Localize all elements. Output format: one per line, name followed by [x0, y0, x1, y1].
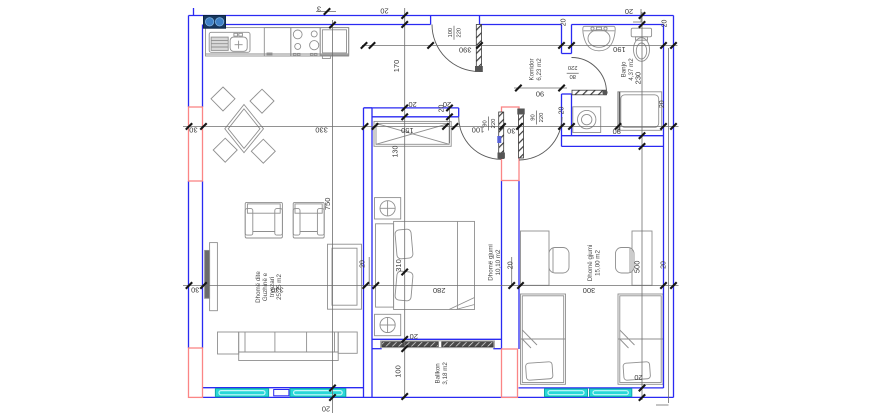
room label balcony	[435, 362, 450, 385]
sideboard	[328, 244, 362, 309]
armchair 2	[293, 202, 324, 238]
svg-text:20: 20	[659, 100, 666, 108]
svg-text:20: 20	[634, 373, 642, 382]
chair 2	[616, 248, 635, 274]
double bed headboard	[376, 224, 394, 307]
svg-text:20: 20	[662, 20, 669, 28]
svg-text:25,75 m2: 25,75 m2	[276, 274, 283, 300]
dim chain 1 (y=126.4)	[183, 125, 679, 127]
wall: left exterior outer face middle	[188, 181, 190, 348]
svg-text:20: 20	[625, 7, 633, 16]
corner jog bottom-right	[656, 404, 669, 406]
bedroom right door leaf	[517, 109, 562, 161]
stove	[291, 28, 320, 56]
svg-text:6,23 m2: 6,23 m2	[536, 58, 543, 81]
vertical ext x=511.7	[511, 257, 513, 286]
room label bedroom mid	[488, 244, 503, 280]
red wall: left exterior segment 2	[189, 348, 203, 397]
ticks chain top	[361, 42, 677, 48]
nightstand 1	[375, 198, 401, 219]
svg-text:20: 20	[439, 105, 446, 113]
room label corridor	[529, 58, 544, 81]
svg-text:80: 80	[569, 73, 575, 79]
chair 1	[549, 248, 569, 274]
pillow 2	[395, 271, 413, 301]
svg-text:Guzhinë e: Guzhinë e	[262, 272, 269, 301]
svg-text:Dhomë gjumi: Dhomë gjumi	[587, 245, 594, 281]
svg-text:220: 220	[568, 64, 578, 70]
wall: bathroom / bedroom right partition	[562, 135, 664, 137]
dining chair bottom-right	[251, 139, 275, 163]
svg-text:tryezari: tryezari	[269, 277, 276, 297]
dim small 3 (y=11.5)	[316, 11, 336, 13]
svg-text:Korridor: Korridor	[529, 58, 536, 80]
red wall: left exterior segment 1	[189, 107, 203, 181]
washing machine	[573, 107, 601, 133]
room label bedroom right	[587, 245, 602, 281]
nightstand 2	[375, 314, 401, 335]
FURNITURE LAYER	[205, 26, 663, 384]
wall: top exterior inner face (entry door to bath wall)	[480, 24, 562, 26]
stub top-left	[193, 8, 195, 15]
sofa side table right	[338, 332, 357, 353]
svg-text:20: 20	[408, 100, 416, 109]
DIMENSION LINES	[183, 8, 679, 413]
svg-text:90: 90	[536, 89, 544, 98]
wall: bedroom mid / bedroom right partition	[501, 181, 503, 350]
wall: left exterior outer face upper	[188, 16, 190, 108]
entry door jambs	[430, 16, 432, 25]
room label bathroom	[621, 58, 636, 81]
svg-text:30: 30	[189, 126, 197, 135]
vertical ext x=449.5	[449, 106, 451, 143]
desk 1	[521, 231, 550, 285]
shower	[618, 92, 662, 131]
pillow 1	[395, 229, 413, 259]
svg-text:30: 30	[507, 127, 515, 136]
vertical chain x=668.5	[668, 48, 670, 403]
double bed mattress	[394, 221, 475, 309]
window band living room (cyan)	[215, 389, 345, 397]
svg-text:10,10 m2: 10,10 m2	[495, 249, 502, 275]
svg-text:100: 100	[448, 28, 454, 38]
dim chain top (y=45.4)	[362, 44, 678, 46]
red wall: mid partition upper	[502, 107, 520, 181]
bed 2 pillow	[623, 362, 651, 381]
svg-text:330: 330	[315, 126, 328, 135]
svg-text:20: 20	[359, 260, 366, 268]
wall: bedroom mid north face	[364, 107, 459, 109]
dining chair top-right	[250, 89, 274, 113]
svg-text:150: 150	[401, 126, 414, 135]
bedroom mid door leaf	[459, 112, 505, 159]
wall: bottom interior face living room	[203, 387, 364, 389]
wall: bottom exterior outer face	[203, 396, 674, 398]
svg-text:390: 390	[459, 46, 472, 55]
vertical chain x=332.5	[332, 20, 334, 413]
ticks chain 2	[186, 282, 677, 288]
svg-text:170: 170	[392, 60, 401, 73]
wall: bottom interior face bedroom right	[519, 387, 664, 389]
door label entry 100/220	[448, 26, 463, 40]
wall: left exterior inner face middle	[202, 181, 204, 348]
kitchen sink unit	[209, 32, 250, 52]
dining table	[225, 105, 264, 153]
wall: bedroom mid north inner face	[372, 116, 459, 118]
wall: top exterior inner face (kitchen to entry door)	[204, 24, 431, 26]
dim corridor 90 (y=88)	[514, 87, 567, 89]
svg-text:Banjo: Banjo	[621, 61, 628, 77]
ticks vchain 449.5	[446, 105, 452, 120]
ticks corridor dim	[515, 85, 565, 91]
svg-text:500: 500	[632, 261, 641, 274]
window band bedroom right (cyan)	[545, 389, 632, 397]
svg-text:90: 90	[613, 127, 621, 136]
tv bench	[210, 243, 218, 311]
wall: living/bedroom partition east face	[371, 108, 373, 398]
wall: bedroom mid south (balcony) north face	[372, 338, 502, 340]
wall: bedroom mid south inner segments	[372, 348, 382, 350]
wall: left exterior inner face upper	[202, 25, 204, 108]
svg-text:220: 220	[539, 113, 545, 123]
corner jog top-right	[633, 9, 641, 22]
hob box on top wall	[204, 16, 226, 29]
svg-text:190: 190	[613, 45, 626, 54]
window divider frame living room	[274, 390, 289, 396]
tick small dim	[324, 8, 330, 14]
door label bathroom 80/220	[567, 64, 579, 79]
red wall segments	[189, 107, 520, 397]
bed 1 pillow	[525, 362, 553, 381]
wall: top exterior outer face	[189, 15, 674, 17]
entry door leaf	[432, 25, 483, 73]
wall: living/bedroom partition west face	[363, 108, 365, 398]
armchair 1	[245, 202, 282, 238]
svg-text:750: 750	[323, 198, 332, 211]
svg-text:20: 20	[561, 18, 568, 26]
dining chair top-left	[211, 87, 235, 111]
wall: right exterior inner face	[663, 25, 665, 389]
svg-text:Ballkon: Ballkon	[435, 363, 442, 384]
sofa side table left	[218, 332, 239, 354]
svg-text:20: 20	[660, 261, 667, 269]
wall: top exterior inner face (bathroom)	[572, 24, 664, 26]
kitchen cabinet module	[264, 28, 291, 56]
svg-text:4,37 m2: 4,37 m2	[628, 58, 635, 81]
vertical ext x=369.2	[368, 257, 370, 286]
svg-text:90: 90	[531, 114, 537, 120]
svg-text:20: 20	[508, 261, 515, 269]
svg-text:3,18 m2: 3,18 m2	[442, 362, 449, 385]
ticks vchain 332.5	[329, 22, 335, 401]
svg-text:90: 90	[483, 120, 489, 126]
vertical chain x=642	[641, 12, 643, 400]
fridge module	[320, 28, 349, 55]
WALLS (blue)	[189, 8, 674, 397]
svg-text:220: 220	[491, 119, 497, 129]
desk 2	[632, 231, 652, 285]
wall: bathroom west face segments	[561, 25, 563, 54]
wardrobe	[374, 121, 451, 146]
blanket fold	[449, 298, 475, 310]
svg-text:130: 130	[393, 146, 400, 158]
svg-text:310: 310	[394, 259, 403, 272]
room label living	[255, 271, 283, 303]
ticks chain 1	[186, 123, 677, 129]
svg-text:20: 20	[558, 107, 565, 115]
svg-text:Dhomë gjumi: Dhomë gjumi	[488, 244, 495, 280]
ticks vchain 642	[639, 12, 645, 401]
dim chain 2 (y=285.5)	[183, 285, 679, 287]
red wall: balcony east	[502, 349, 518, 397]
single bed 1	[521, 294, 566, 384]
single bed 2	[618, 294, 663, 384]
door size labels	[448, 26, 579, 131]
dining chair bottom-left	[213, 138, 237, 162]
door label bedroom right 90/220	[531, 111, 546, 125]
balcony sliding door	[381, 341, 495, 348]
svg-text:30: 30	[191, 285, 199, 294]
wall: right exterior outer face	[673, 16, 675, 398]
vertical chain x=404.7	[404, 8, 406, 399]
door label bedroom mid 90/220	[483, 117, 498, 131]
sofa	[239, 332, 339, 361]
svg-text:Dhomë dite: Dhomë dite	[255, 271, 262, 303]
svg-text:15,00 m2: 15,00 m2	[595, 250, 602, 276]
svg-text:20: 20	[380, 7, 388, 16]
svg-text:220: 220	[457, 28, 463, 38]
svg-text:20: 20	[410, 332, 418, 341]
TICK MARKS	[186, 8, 677, 401]
svg-text:280: 280	[433, 286, 446, 295]
svg-text:100: 100	[393, 365, 402, 378]
toilet	[631, 28, 651, 37]
svg-text:300: 300	[583, 286, 596, 295]
ticks vchain 404.7	[402, 12, 408, 399]
svg-text:3: 3	[317, 5, 321, 14]
kitchen counter	[206, 28, 349, 56]
bathroom door leaf	[572, 58, 608, 96]
svg-text:20: 20	[322, 405, 330, 414]
room labels	[255, 58, 635, 385]
washbasin	[583, 26, 615, 51]
